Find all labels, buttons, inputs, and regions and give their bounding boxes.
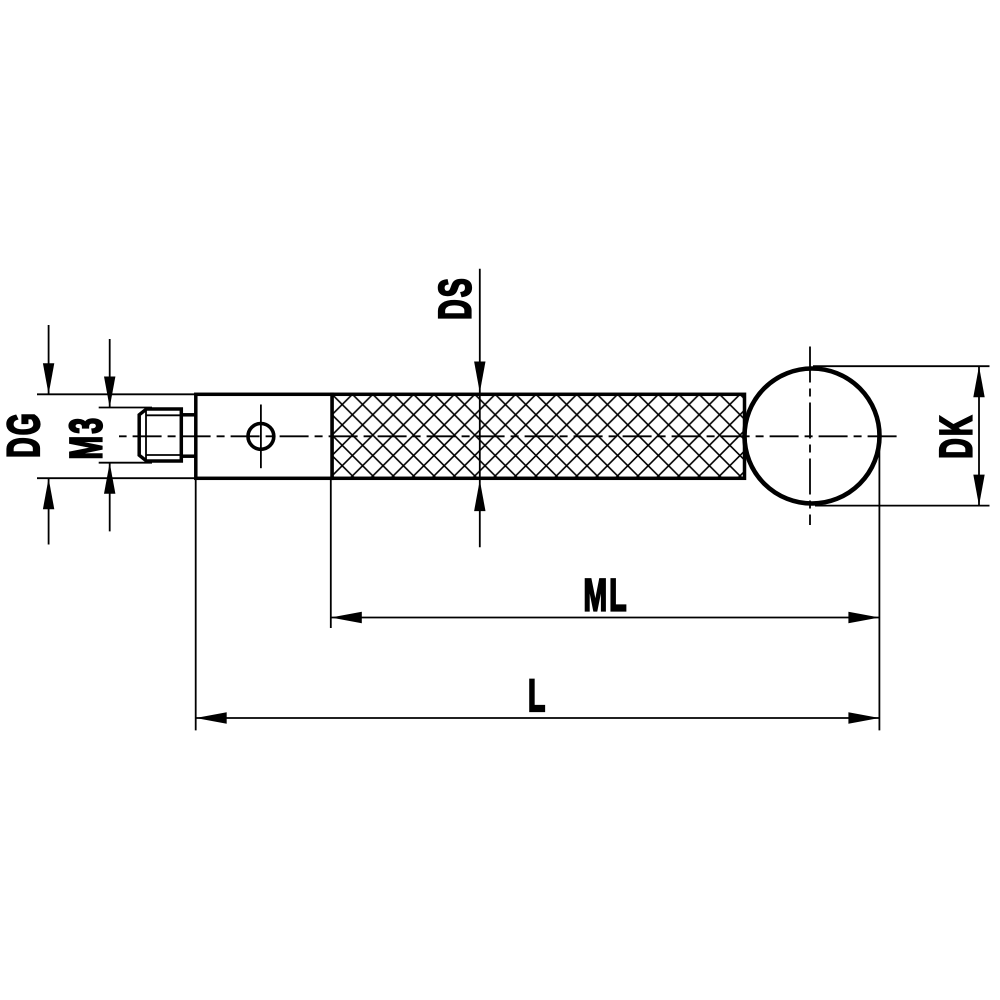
dim L extension left	[195, 480, 197, 730]
dim DS arrow bottom	[474, 480, 485, 511]
dim M3 arrow bottom	[104, 463, 115, 494]
dim DG extension top	[37, 393, 196, 395]
dim M3 line bottom	[109, 463, 111, 532]
hole vertical crosshair	[260, 405, 262, 469]
dim M3 arrow top	[104, 377, 115, 408]
stylus holder block	[196, 394, 332, 478]
dim L line	[196, 717, 880, 719]
svg-text:DS: DS	[430, 276, 480, 320]
knurled shaft (carbon fibre stylus shaft)	[332, 394, 745, 478]
horizontal centerline	[119, 435, 898, 437]
dim DK line	[978, 366, 980, 505]
dim DG line bottom	[48, 478, 50, 544]
dim DG arrow bottom	[43, 478, 54, 509]
svg-text:ML: ML	[583, 570, 628, 620]
dim DK arrow bottom	[973, 475, 984, 506]
dim DK extension bottom	[815, 505, 990, 507]
thread minor diameter bottom line	[146, 454, 181, 456]
dim DG extension bottom	[37, 477, 196, 479]
thread chamfer line	[145, 410, 147, 460]
dim DG arrow top	[43, 363, 54, 394]
ball tangent extension line	[878, 437, 880, 730]
neck top line	[181, 413, 196, 417]
ball vertical centerline	[809, 347, 811, 526]
neck bottom line	[181, 454, 196, 458]
ball tip	[745, 369, 880, 504]
dim M3 extension bottom	[99, 462, 152, 464]
threaded stub M3 outline	[139, 409, 181, 461]
svg-text:DK: DK	[931, 413, 981, 458]
dim M3 line top	[109, 339, 111, 408]
dim ML line	[331, 617, 880, 619]
side hole in holder	[248, 424, 274, 450]
dim ML extension left	[330, 480, 332, 628]
dim ML arrow right	[848, 612, 879, 623]
dim DS arrow top	[474, 362, 485, 393]
dim DS line through	[479, 269, 481, 547]
dim M3 extension top	[99, 407, 152, 409]
dim ML arrow left	[331, 612, 362, 623]
svg-text:DG: DG	[0, 411, 49, 458]
svg-text:M3: M3	[61, 416, 111, 460]
dim DK arrow top	[973, 366, 984, 397]
svg-text:L: L	[528, 670, 548, 720]
dim DK extension top	[813, 365, 990, 367]
dim L arrow left	[196, 712, 227, 723]
thread minor diameter top line	[146, 414, 181, 416]
dim DG line top	[48, 325, 50, 394]
dim L arrow right	[848, 712, 879, 723]
